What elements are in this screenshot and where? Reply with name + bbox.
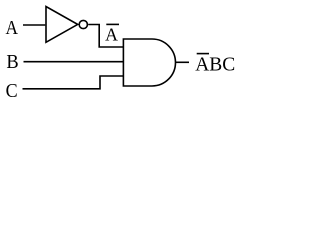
wire — [23, 24, 45, 26]
node output overline — [197, 53, 209, 55]
wire — [88, 25, 123, 48]
and-gate U2 — [123, 39, 175, 86]
wire — [23, 76, 124, 89]
inverter U1 triangle — [46, 7, 78, 43]
svg-text:ABC: ABC — [195, 54, 235, 76]
inverter U1 bubble — [79, 20, 87, 28]
svg-text:A: A — [105, 25, 118, 45]
node A-bar overline — [106, 23, 119, 25]
svg-text:C: C — [6, 80, 18, 102]
wire — [176, 61, 189, 63]
svg-text:A: A — [6, 17, 19, 39]
wire — [24, 61, 124, 63]
svg-text:B: B — [6, 51, 18, 73]
